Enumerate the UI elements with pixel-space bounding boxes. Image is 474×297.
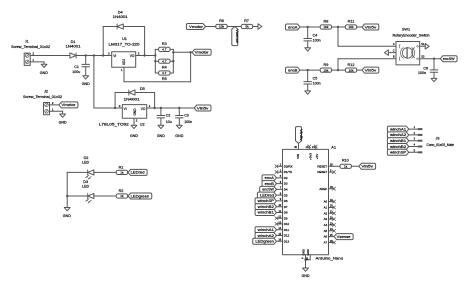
svg-text:5k: 5k <box>245 25 249 29</box>
svg-text:encSW: encSW <box>262 188 274 192</box>
svg-text:SW1: SW1 <box>402 28 410 32</box>
svg-text:1N4001: 1N4001 <box>113 15 128 19</box>
svg-text:Vin5v: Vin5v <box>365 68 377 72</box>
svg-text:U1: U1 <box>122 37 127 41</box>
svg-text:RESET: RESET <box>317 164 327 168</box>
svg-text:10k: 10k <box>349 68 354 72</box>
svg-text:GND: GND <box>175 134 183 138</box>
svg-text:B: B <box>393 54 395 58</box>
svg-text:winchB1: winchB1 <box>390 139 406 143</box>
svg-text:1k: 1k <box>344 164 348 168</box>
svg-text:VO: VO <box>141 107 146 111</box>
svg-text:D8: D8 <box>284 211 288 215</box>
svg-text:Vin5v: Vin5v <box>299 129 303 141</box>
svg-text:C2: C2 <box>166 114 171 118</box>
svg-text:D7: D7 <box>284 205 288 209</box>
svg-text:encB: encB <box>265 182 275 186</box>
svg-text:GND: GND <box>59 121 67 125</box>
svg-text:Vsense: Vsense <box>337 235 351 239</box>
svg-text:encA: encA <box>288 25 298 29</box>
svg-text:Vin5v: Vin5v <box>361 165 373 169</box>
svg-text:D13: D13 <box>284 239 290 243</box>
svg-text:GND: GND <box>157 134 165 138</box>
svg-text:A6: A6 <box>324 235 328 239</box>
svg-text:R8: R8 <box>323 20 328 24</box>
svg-text:encA: encA <box>265 176 275 180</box>
svg-text:VO: VO <box>130 54 135 58</box>
svg-text:A1: A1 <box>324 206 328 210</box>
svg-text:R5: R5 <box>162 77 167 81</box>
svg-text:GND: GND <box>133 108 137 116</box>
svg-text:4.7: 4.7 <box>162 59 167 63</box>
svg-text:4.7: 4.7 <box>162 48 167 52</box>
svg-text:AREF: AREF <box>319 187 327 191</box>
svg-text:A2: A2 <box>324 211 328 215</box>
svg-text:winchB2: winchB2 <box>390 145 406 149</box>
svg-text:Vin5v: Vin5v <box>365 25 377 29</box>
svg-text:D11: D11 <box>284 228 290 232</box>
svg-text:R9: R9 <box>323 63 328 67</box>
svg-text:100n: 100n <box>313 39 321 43</box>
svg-text:C5: C5 <box>313 76 318 80</box>
svg-text:D12: D12 <box>284 234 290 238</box>
svg-text:A: A <box>393 42 395 46</box>
svg-text:10k: 10k <box>323 25 328 29</box>
svg-text:winchB1: winchB1 <box>258 211 274 215</box>
svg-text:GND: GND <box>63 214 71 218</box>
svg-text:R10: R10 <box>342 159 349 163</box>
svg-text:D0/RX: D0/RX <box>284 164 293 168</box>
svg-text:Arduino_Nano: Arduino_Nano <box>316 257 344 261</box>
svg-text:RESET: RESET <box>317 170 327 174</box>
svg-text:Screw_Terminal_01x02: Screw_Terminal_01x02 <box>23 95 62 99</box>
svg-text:R2: R2 <box>119 189 124 193</box>
svg-text:C4: C4 <box>313 33 318 37</box>
svg-text:R12: R12 <box>348 63 355 67</box>
svg-text:A7: A7 <box>324 241 328 245</box>
svg-text:RotaryEncoder_Switch: RotaryEncoder_Switch <box>393 33 430 37</box>
svg-text:Screw_Terminal_01x02: Screw_Terminal_01x02 <box>11 45 50 49</box>
svg-text:winchB2: winchB2 <box>258 205 274 209</box>
svg-text:D2: D2 <box>284 176 288 180</box>
svg-text:GND: GND <box>301 249 305 255</box>
svg-text:C: C <box>393 49 395 53</box>
svg-text:Vin5v: Vin5v <box>197 106 209 110</box>
svg-text:Conn_01x05_Male: Conn_01x05_Male <box>427 143 455 147</box>
svg-text:1N4001: 1N4001 <box>124 98 140 102</box>
svg-text:winchA1: winchA1 <box>258 228 274 232</box>
svg-text:D9: D9 <box>284 216 288 220</box>
svg-text:+5V: +5V <box>315 154 319 159</box>
svg-text:4.7: 4.7 <box>162 71 167 75</box>
svg-text:Vmotor: Vmotor <box>189 25 204 29</box>
svg-text:LED: LED <box>82 160 89 164</box>
svg-text:VI: VI <box>124 107 127 111</box>
svg-text:A1: A1 <box>331 145 336 149</box>
svg-text:U2: U2 <box>140 122 145 126</box>
svg-text:VIN: VIN <box>296 154 300 159</box>
svg-text:A0: A0 <box>324 200 328 204</box>
svg-text:R4: R4 <box>162 65 167 69</box>
svg-text:J1: J1 <box>25 39 29 43</box>
svg-text:10k: 10k <box>349 25 354 29</box>
svg-text:C3: C3 <box>184 114 189 118</box>
svg-text:A4: A4 <box>324 223 328 227</box>
svg-text:10k: 10k <box>323 68 328 72</box>
svg-text:D10: D10 <box>284 222 290 226</box>
svg-text:winchA2: winchA2 <box>258 234 274 238</box>
svg-text:A5: A5 <box>324 229 328 233</box>
svg-text:winchSP: winchSP <box>258 199 275 203</box>
svg-text:R11: R11 <box>348 20 355 24</box>
svg-text:D4: D4 <box>284 187 288 191</box>
svg-text:VI: VI <box>113 54 116 58</box>
svg-text:Vmotor: Vmotor <box>195 51 210 55</box>
svg-text:Vmotor: Vmotor <box>61 103 76 107</box>
svg-text:1k: 1k <box>120 194 124 198</box>
svg-text:A3: A3 <box>324 217 328 221</box>
svg-text:D1/TX: D1/TX <box>284 170 292 174</box>
svg-text:ADJ: ADJ <box>122 59 126 65</box>
svg-text:winchSP: winchSP <box>390 151 407 155</box>
svg-text:LEDred: LEDred <box>131 171 145 175</box>
svg-text:GND: GND <box>130 134 138 138</box>
svg-text:1k: 1k <box>120 171 124 175</box>
svg-text:L78L05_TO92: L78L05_TO92 <box>99 122 129 126</box>
svg-text:10k: 10k <box>219 25 224 29</box>
svg-text:LEDgreen: LEDgreen <box>255 240 274 244</box>
svg-text:1N4001: 1N4001 <box>66 45 81 49</box>
svg-text:100n: 100n <box>313 82 321 86</box>
svg-text:J2: J2 <box>44 89 48 93</box>
svg-text:Vsense: Vsense <box>235 29 239 43</box>
svg-text:GND: GND <box>302 274 310 278</box>
svg-text:+3V3: +3V3 <box>308 153 312 160</box>
svg-text:R7: R7 <box>244 19 249 23</box>
svg-text:winchA2: winchA2 <box>390 133 406 137</box>
svg-text:encSW: encSW <box>443 57 455 61</box>
svg-text:100n: 100n <box>418 71 426 75</box>
svg-text:R1: R1 <box>119 165 124 169</box>
svg-text:D3: D3 <box>284 182 288 186</box>
svg-text:100n: 100n <box>184 120 192 124</box>
svg-text:LEDgreen: LEDgreen <box>131 194 150 198</box>
svg-text:LM317_TO-220: LM317_TO-220 <box>109 43 140 47</box>
svg-text:GND: GND <box>82 82 90 86</box>
svg-text:GND: GND <box>40 71 48 75</box>
svg-text:R3: R3 <box>162 42 167 46</box>
svg-text:D5: D5 <box>284 193 288 197</box>
svg-text:10u: 10u <box>166 120 172 124</box>
svg-text:winchA1: winchA1 <box>390 127 406 131</box>
svg-text:D4: D4 <box>118 11 123 15</box>
svg-text:D5: D5 <box>140 87 145 91</box>
svg-text:C1: C1 <box>74 65 79 69</box>
svg-text:C6: C6 <box>423 66 428 70</box>
svg-text:J3: J3 <box>436 137 440 141</box>
svg-text:100u: 100u <box>72 70 80 74</box>
svg-text:encB: encB <box>288 68 298 72</box>
svg-text:D1: D1 <box>71 40 76 44</box>
svg-text:D6: D6 <box>284 199 288 203</box>
svg-text:LEDred: LEDred <box>260 193 274 197</box>
svg-text:S2: S2 <box>421 54 425 58</box>
svg-text:LED: LED <box>82 184 89 188</box>
svg-text:R6: R6 <box>219 19 224 23</box>
svg-text:S1: S1 <box>421 42 425 46</box>
svg-text:GND: GND <box>306 249 310 255</box>
